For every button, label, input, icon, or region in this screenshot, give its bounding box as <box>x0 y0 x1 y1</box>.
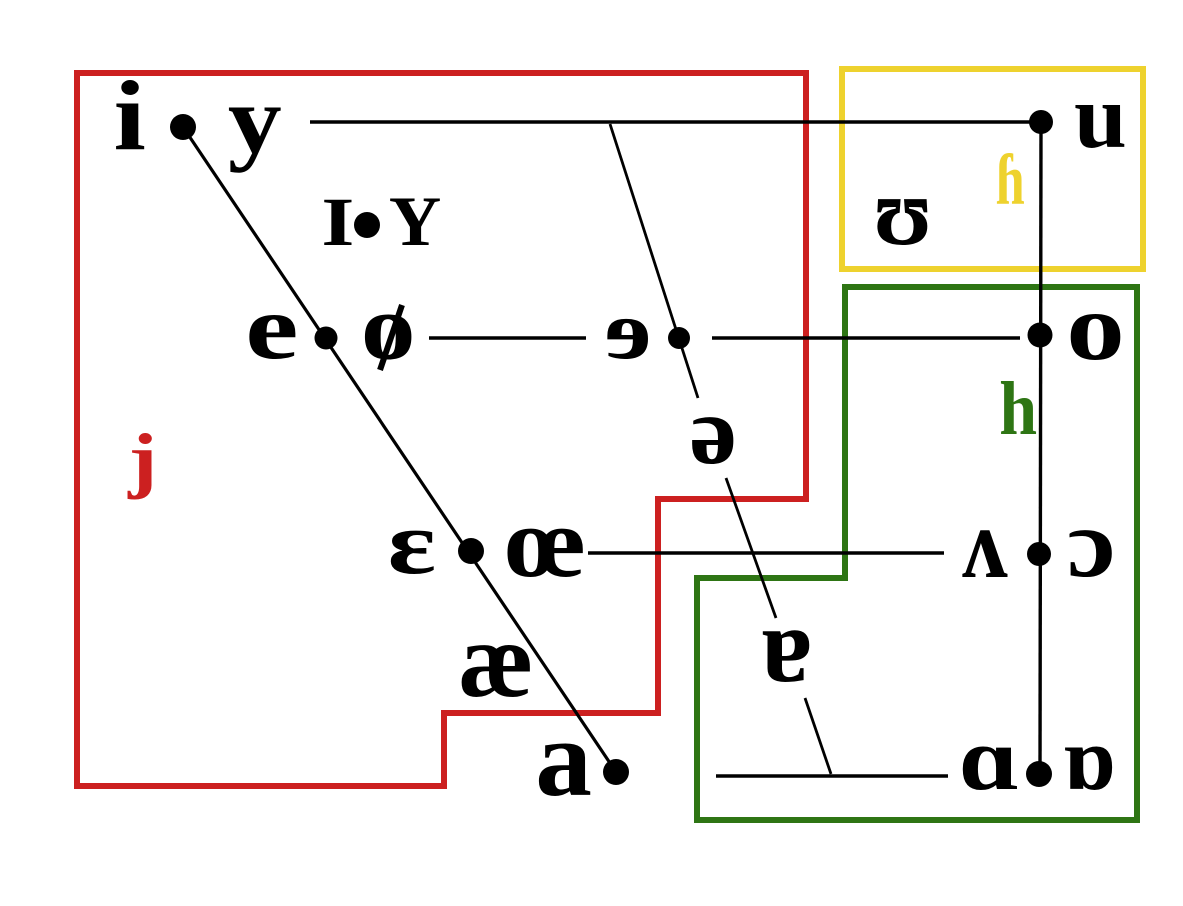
svg-text:Y: Y <box>389 182 441 261</box>
svg-text:ɐ: ɐ <box>761 585 812 705</box>
svg-text:a: a <box>535 699 592 820</box>
node e-o_slash <box>315 327 338 350</box>
node open_o <box>1027 542 1051 566</box>
node reversed_e <box>668 327 690 349</box>
svg-text:ə: ə <box>689 376 737 485</box>
svg-text:j: j <box>127 420 157 500</box>
svg-text:ɒ: ɒ <box>1063 709 1116 809</box>
wire diagonal central segment 2 <box>726 478 776 618</box>
wire right vertical u-o-open_o-alpha <box>1040 122 1041 774</box>
svg-text:œ: œ <box>505 486 586 598</box>
svg-text:ɦ: ɦ <box>996 140 1025 220</box>
wire oe to turned_v <box>588 551 944 554</box>
svg-text:ʊ: ʊ <box>873 157 932 265</box>
svg-text:ɘ: ɘ <box>605 283 652 376</box>
node epsilon-oe <box>458 538 484 564</box>
wire mid line o_slash to reversed_e <box>429 336 586 339</box>
node i-y <box>170 114 196 140</box>
node u <box>1029 110 1053 134</box>
svg-text:o: o <box>1066 275 1125 381</box>
svg-text:y: y <box>228 67 282 174</box>
wire diagonal i to a <box>183 127 616 772</box>
red outline (palatal group j) <box>77 73 806 786</box>
node o <box>1028 323 1053 348</box>
wire bottom line to alpha <box>716 774 948 777</box>
svg-text:ʌ: ʌ <box>962 489 1008 599</box>
svg-text:ɑ: ɑ <box>959 710 1020 809</box>
yellow outline (group hooktop-h) <box>842 69 1143 269</box>
svg-text:I: I <box>321 183 354 260</box>
node a <box>603 759 629 785</box>
node smallcap_i-Y <box>354 212 380 238</box>
svg-text:ɛ: ɛ <box>387 494 435 593</box>
svg-text:o: o <box>361 276 416 380</box>
svg-text:u: u <box>1074 67 1127 168</box>
svg-text:æ: æ <box>458 600 534 720</box>
svg-text:ɔ: ɔ <box>1067 489 1116 598</box>
svg-text:h: h <box>999 367 1037 451</box>
vowel o_slash slash stroke <box>380 305 402 370</box>
wire diagonal central segment 3 <box>805 698 831 774</box>
green outline (group h) <box>697 287 1137 820</box>
node alpha-turned_alpha <box>1026 761 1052 787</box>
svg-text:i: i <box>114 61 146 171</box>
svg-text:e: e <box>245 277 298 378</box>
wire mid line reversed_e to o <box>712 336 1020 339</box>
wire diagonal central segment 1 <box>610 124 698 398</box>
wire top line y-u <box>310 120 1041 123</box>
